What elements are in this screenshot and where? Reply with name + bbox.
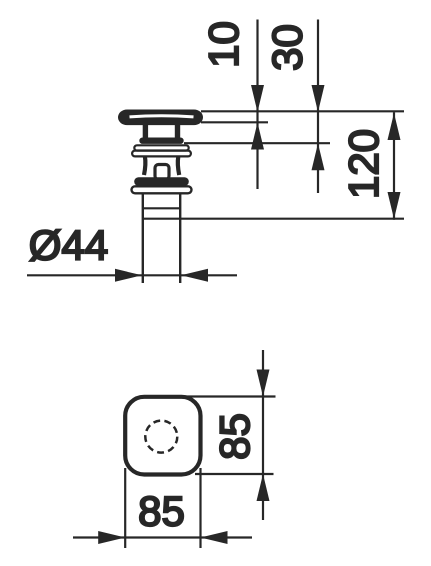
lower flange ring	[132, 151, 191, 157]
upper flange ring	[134, 145, 188, 150]
svg-text:10: 10	[200, 21, 247, 68]
dimension line diameter 44	[27, 269, 237, 282]
valve body left wall	[144, 157, 145, 176]
svg-text:30: 30	[264, 24, 311, 71]
dimension line 120	[388, 112, 401, 219]
tailpipe left wall	[142, 193, 144, 283]
svg-text:85: 85	[138, 488, 185, 535]
square bottom extension line	[195, 473, 274, 475]
top view concealed circle (dashed)	[145, 421, 177, 453]
svg-text:120: 120	[340, 129, 387, 199]
tailpipe joint line	[143, 207, 180, 209]
dimension line 10	[251, 20, 264, 190]
dimension line 30	[312, 20, 325, 194]
svg-text:85: 85	[211, 413, 258, 460]
top view rounded square body	[125, 397, 200, 475]
valve tab	[155, 165, 169, 180]
cap top extension line	[201, 110, 404, 112]
tailpipe bottom extension line (120 dim)	[143, 218, 404, 220]
square top extension line	[186, 395, 276, 397]
cap (mushroom push-button cap, side view)	[118, 110, 203, 126]
lower black flange band	[134, 177, 189, 186]
square right extension line	[199, 468, 201, 548]
cap bottom extension line	[201, 121, 268, 123]
neck right wall	[175, 125, 180, 139]
neck left wall	[143, 125, 148, 139]
neck collar band	[139, 138, 183, 144]
dimension line 85 horizontal	[73, 531, 252, 544]
flange extension line	[184, 142, 330, 144]
valve body right wall	[178, 157, 179, 176]
square left extension line	[124, 468, 126, 548]
dimension line 85 vertical	[257, 350, 270, 520]
tailpipe right wall	[179, 193, 181, 283]
svg-text:Ø44: Ø44	[29, 222, 108, 269]
lower white flange ring	[132, 186, 192, 193]
